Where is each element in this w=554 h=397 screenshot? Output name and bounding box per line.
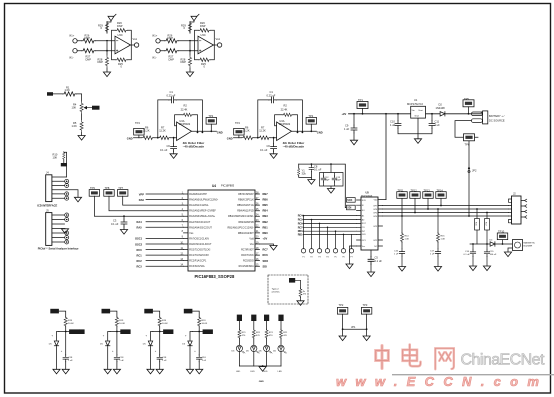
MCU pin names left bbox=[189, 193, 218, 268]
wire input bbox=[134, 137, 177, 139]
svg-text:P2: P2 bbox=[310, 257, 312, 259]
svg-text:U1: U1 bbox=[414, 98, 418, 102]
svg-text:R2: R2 bbox=[184, 104, 188, 108]
MCU right pin stubs bbox=[255, 194, 260, 266]
svg-text:R15: R15 bbox=[441, 236, 446, 238]
capacitor C14 bbox=[472, 244, 474, 266]
capacitor C1 loop bbox=[158, 100, 203, 138]
junction bbox=[157, 137, 159, 139]
svg-text:GND: GND bbox=[217, 130, 223, 134]
svg-text:DNP: DNP bbox=[86, 57, 92, 61]
svg-text:0.1 uF: 0.1 uF bbox=[314, 168, 322, 172]
svg-text:RC2: RC2 bbox=[137, 259, 143, 263]
input pin P2 bbox=[73, 49, 77, 53]
svg-text:+5V: +5V bbox=[263, 236, 268, 240]
resistor R5 bbox=[80, 121, 83, 132]
svg-text:PIC16F883: PIC16F883 bbox=[221, 184, 235, 188]
svg-text:1N4448: 1N4448 bbox=[436, 106, 446, 110]
svg-text:1 uF: 1 uF bbox=[430, 254, 435, 256]
svg-text:22pF: 22pF bbox=[336, 180, 342, 182]
resistor R26f bbox=[116, 29, 128, 32]
watermark logo char zhong bbox=[376, 346, 389, 369]
svg-text:470: 470 bbox=[242, 335, 246, 337]
svg-text:DC SOURCE: DC SOURCE bbox=[489, 118, 505, 122]
svg-text:RB1/AN10/P1C/C12IN3-: RB1/AN10/P1C/C12IN3- bbox=[228, 226, 254, 229]
svg-text:+9V: +9V bbox=[342, 112, 347, 116]
svg-text:RB1: RB1 bbox=[298, 233, 303, 236]
MCU pin numbers left bbox=[180, 191, 183, 266]
svg-text:RC2/P1A/CCP1: RC2/P1A/CCP1 bbox=[189, 260, 207, 263]
svg-text:1.0K: 1.0K bbox=[441, 239, 446, 241]
svg-text:PIC16F883_SSOP28: PIC16F883_SSOP28 bbox=[195, 274, 235, 279]
svg-text:RC0: RC0 bbox=[137, 248, 143, 252]
MCU pin numbers right bbox=[256, 191, 259, 266]
svg-text:RC1: RC1 bbox=[137, 253, 143, 257]
svg-text:RB3/AN9/PGM/C12IN2-: RB3/AN9/PGM/C12IN2- bbox=[228, 215, 254, 218]
svg-text:R14: R14 bbox=[405, 236, 410, 238]
power flag bbox=[108, 14, 116, 21]
svg-text:DNP: DNP bbox=[98, 60, 104, 64]
ground regulator bbox=[414, 139, 421, 144]
svg-text:22pF: 22pF bbox=[325, 180, 331, 182]
buzzer LS1 bbox=[513, 240, 523, 251]
resistor R1 bbox=[63, 92, 77, 96]
resistor R6 bbox=[142, 136, 154, 140]
svg-text:JP2: JP2 bbox=[472, 168, 477, 172]
svg-text:SDI: SDI bbox=[347, 207, 351, 210]
svg-text:U3C: U3C bbox=[118, 33, 123, 37]
junction bbox=[106, 40, 108, 42]
svg-text:Typical: Typical bbox=[272, 289, 279, 291]
ground bbox=[61, 229, 68, 234]
op-amp U3A bbox=[177, 122, 192, 141]
svg-text:GND: GND bbox=[127, 136, 133, 140]
diode Dk bbox=[54, 341, 58, 346]
diode D2 bbox=[440, 112, 445, 116]
ground bbox=[74, 197, 81, 202]
U5 pin stubs right bbox=[378, 200, 386, 247]
svg-text:MAGNETIC: MAGNETIC bbox=[524, 242, 536, 245]
resistor R7 bbox=[158, 136, 170, 140]
svg-text:U4: U4 bbox=[212, 184, 216, 188]
svg-text:U5: U5 bbox=[366, 191, 370, 195]
svg-text:1 uF: 1 uF bbox=[344, 127, 350, 131]
svg-text:C9: C9 bbox=[345, 123, 349, 127]
capacitor Ck bbox=[63, 355, 68, 362]
svg-text:SDI: SDI bbox=[263, 265, 268, 269]
svg-text:RC7: RC7 bbox=[263, 248, 269, 252]
connector J5 PICkit bbox=[38, 208, 79, 250]
diode D4 bbox=[490, 242, 495, 246]
U5 bus wires left bbox=[303, 216, 357, 235]
MCU U4 PIC16F883 bbox=[188, 184, 255, 280]
svg-text:RB7: RB7 bbox=[263, 192, 269, 196]
svg-text:ChinaECNet: ChinaECNet bbox=[461, 352, 546, 369]
svg-text:1 uF: 1 uF bbox=[435, 123, 441, 127]
svg-text:RC0/T1OSO/T1CKI: RC0/T1OSO/T1CKI bbox=[189, 249, 210, 252]
input conditioning circuit 2 bbox=[100, 309, 131, 374]
load caps box bbox=[330, 163, 332, 165]
svg-text:0.1 uF: 0.1 uF bbox=[464, 254, 471, 256]
svg-text:RC5: RC5 bbox=[298, 219, 303, 222]
resistor R29 bbox=[105, 22, 108, 33]
wire J1 return bbox=[455, 121, 478, 216]
svg-text:TP4: TP4 bbox=[135, 121, 140, 125]
capacitor C15 bbox=[486, 244, 488, 266]
svg-text:RC7/RX/DT: RC7/RX/DT bbox=[241, 249, 254, 252]
svg-text:P6: P6 bbox=[342, 257, 344, 259]
svg-text:SCK: SCK bbox=[362, 200, 367, 202]
wire TP9 to pin5 bbox=[94, 196, 183, 216]
svg-text:DNP: DNP bbox=[85, 36, 91, 40]
pin circle bbox=[65, 236, 69, 240]
input conditioning circuit 3 bbox=[143, 309, 174, 374]
svg-text:GND: GND bbox=[259, 381, 264, 383]
capacitor C13 bbox=[332, 176, 337, 182]
pin circle bbox=[65, 240, 69, 244]
svg-text:www.ECCN.com: www.ECCN.com bbox=[336, 374, 548, 389]
svg-text:RB7/ICSPDAT: RB7/ICSPDAT bbox=[238, 193, 254, 196]
ground buzzer bbox=[504, 252, 511, 257]
ground MCU Vss bbox=[260, 244, 274, 246]
resistor box R17 bbox=[486, 213, 488, 245]
svg-text:RA6/OSC2/CLKOUT: RA6/OSC2/CLKOUT bbox=[189, 243, 212, 246]
op-amp stage U3C bbox=[69, 14, 139, 76]
svg-text:R19: R19 bbox=[68, 320, 73, 322]
resistor R25 bbox=[116, 58, 128, 61]
svg-text:P1: P1 bbox=[302, 257, 304, 259]
feedback box wires bbox=[112, 30, 132, 60]
test point TP6 bbox=[464, 134, 475, 141]
svg-text:MCP1702-5.0: MCP1702-5.0 bbox=[407, 102, 424, 106]
svg-text:C5: C5 bbox=[375, 256, 379, 260]
capacitor C6 bbox=[173, 137, 175, 139]
svg-text:RC6: RC6 bbox=[263, 253, 269, 257]
pin circle bbox=[65, 179, 69, 183]
svg-text:0.1 uF: 0.1 uF bbox=[160, 148, 168, 152]
svg-text:RC7: RC7 bbox=[298, 226, 303, 229]
svg-text:D6: D6 bbox=[232, 350, 236, 352]
junction bbox=[65, 331, 67, 333]
svg-text:P4: P4 bbox=[326, 257, 328, 259]
ground bbox=[120, 230, 127, 235]
svg-text:100 uF: 100 uF bbox=[490, 254, 497, 256]
svg-text:Vi1+: Vi1+ bbox=[69, 34, 75, 38]
svg-text:SCK: SCK bbox=[347, 199, 352, 202]
svg-text:470: 470 bbox=[303, 294, 307, 296]
svg-text:Vo1: Vo1 bbox=[133, 37, 138, 41]
svg-text:10.0K: 10.0K bbox=[68, 323, 74, 325]
svg-text:TP6: TP6 bbox=[465, 142, 470, 146]
wire top bbox=[57, 311, 70, 369]
svg-text:~40 dB/Decade: ~40 dB/Decade bbox=[183, 145, 205, 149]
svg-text:C17: C17 bbox=[430, 251, 435, 253]
jumper JP2 bbox=[468, 167, 470, 169]
svg-text:P3: P3 bbox=[318, 257, 320, 259]
LED string 1 bbox=[232, 315, 247, 374]
resistor R27 bbox=[82, 49, 96, 53]
MCU left pin stubs bbox=[184, 194, 189, 266]
svg-text:P7: P7 bbox=[350, 257, 352, 259]
U5 inner pin names bbox=[362, 200, 367, 248]
capacitor C12 bbox=[321, 176, 326, 182]
svg-text:R21: R21 bbox=[242, 332, 247, 334]
RC chain TP11 bbox=[401, 216, 403, 267]
svg-text:C3: C3 bbox=[113, 218, 117, 222]
svg-text:RA1/AN1/C12IN1-: RA1/AN1/C12IN1- bbox=[189, 204, 209, 207]
ground bbox=[78, 136, 85, 141]
svg-text:C18: C18 bbox=[68, 357, 73, 359]
op-amp stage U3D bbox=[152, 14, 222, 76]
watermark logo char wang bbox=[435, 348, 454, 369]
capacitor C8 bbox=[311, 163, 313, 165]
svg-text:0.1 uF: 0.1 uF bbox=[375, 259, 383, 263]
net label out wide c1 bbox=[79, 329, 85, 334]
svg-text:10K: 10K bbox=[72, 105, 77, 109]
resistor box R16 bbox=[476, 209, 478, 244]
resistor R26 bbox=[82, 39, 96, 43]
svg-text:OSC1: OSC1 bbox=[135, 237, 143, 241]
svg-text:RA4: RA4 bbox=[137, 220, 143, 224]
svg-text:C1: C1 bbox=[170, 90, 174, 94]
svg-text:C15: C15 bbox=[490, 251, 495, 253]
ground LED bbox=[259, 367, 266, 372]
svg-text:JP1: JP1 bbox=[351, 325, 356, 329]
svg-text:0.1 uF: 0.1 uF bbox=[111, 222, 119, 226]
svg-text:BUZZER: BUZZER bbox=[524, 246, 533, 248]
watermark divider line bbox=[392, 374, 554, 376]
ground bbox=[308, 180, 315, 185]
svg-text:RB2: RB2 bbox=[263, 220, 269, 224]
jumper JP1 wire bbox=[343, 314, 367, 336]
svg-text:SDO: SDO bbox=[263, 259, 269, 263]
net label wiper bbox=[92, 106, 100, 110]
net label out bbox=[69, 329, 79, 334]
svg-text:ICD INTERFACE: ICD INTERFACE bbox=[37, 203, 57, 207]
svg-text:RC5/SDO: RC5/SDO bbox=[243, 260, 254, 263]
wire bbox=[53, 94, 82, 136]
ground bbox=[339, 336, 346, 341]
long 5V rail down bbox=[385, 113, 387, 115]
MCU pin names right bbox=[228, 193, 255, 268]
svg-text:RA2/AN2/VREF-/CVREF: RA2/AN2/VREF-/CVREF bbox=[189, 210, 216, 213]
svg-text:PICkit™ Serial Analyzer Interf: PICkit™ Serial Analyzer Interface bbox=[38, 247, 79, 251]
output pin PA2 bbox=[134, 43, 138, 47]
ground bbox=[350, 140, 357, 145]
svg-text:RC4/SDI/SDA: RC4/SDI/SDA bbox=[239, 265, 254, 268]
svg-text:Vi1-: Vi1- bbox=[69, 56, 74, 60]
bus wires to J2 bbox=[383, 206, 509, 217]
capacitor C5 bbox=[370, 250, 372, 272]
LED string 3 bbox=[259, 315, 274, 374]
svg-text:RA3/MCLR/VPP: RA3/MCLR/VPP bbox=[189, 193, 207, 196]
svg-text:RA7/OSC1/CLKIN: RA7/OSC1/CLKIN bbox=[189, 237, 209, 240]
capacitor C3 bbox=[123, 215, 125, 217]
svg-text:P5: P5 bbox=[334, 257, 336, 259]
pin circle bbox=[65, 192, 69, 196]
wire TP8 to pin4 bbox=[109, 196, 184, 210]
svg-text:Vdd: Vdd bbox=[249, 237, 254, 240]
svg-text:RA0: RA0 bbox=[139, 198, 145, 202]
svg-text:RA5/AN4/SS/C2OUT: RA5/AN4/SS/C2OUT bbox=[189, 226, 212, 229]
resistor Rk bbox=[64, 316, 67, 327]
resistor R10 pullup bbox=[53, 151, 67, 176]
svg-text:MCP6022: MCP6022 bbox=[179, 122, 191, 126]
ground bbox=[483, 266, 490, 271]
svg-text:C11: C11 bbox=[435, 119, 440, 123]
svg-text:J2: J2 bbox=[513, 192, 516, 196]
resistor R2 loop bbox=[175, 115, 198, 133]
capacitor C11 bbox=[431, 113, 433, 115]
svg-text:J4: J4 bbox=[46, 171, 49, 175]
svg-text:RC4: RC4 bbox=[298, 215, 303, 218]
svg-text:RC1/T1OSI/CCP2: RC1/T1OSI/CCP2 bbox=[189, 254, 209, 257]
svg-text:RA0/AN0/ULPWU/C12IN0-: RA0/AN0/ULPWU/C12IN0- bbox=[189, 199, 218, 202]
ground bbox=[327, 189, 334, 194]
svg-text:VPP: VPP bbox=[139, 192, 144, 196]
ground bbox=[367, 272, 374, 277]
test pin circles row bbox=[301, 215, 353, 259]
svg-text:RA3/AN3/VREF+/C1IN+: RA3/AN3/VREF+/C1IN+ bbox=[189, 215, 216, 218]
svg-text:RB0/AN12/INT: RB0/AN12/INT bbox=[238, 232, 254, 235]
LED common wire bbox=[239, 365, 281, 367]
svg-text:RB5/AN13/T1G: RB5/AN13/T1G bbox=[237, 204, 254, 207]
svg-text:J5: J5 bbox=[46, 208, 49, 212]
U5 pin stubs left bbox=[357, 200, 362, 246]
pin circle bbox=[65, 218, 69, 222]
pin circle bbox=[65, 196, 69, 200]
connector J4 ICD bbox=[37, 171, 81, 208]
pin circle bbox=[65, 184, 69, 188]
svg-text:RB1: RB1 bbox=[263, 225, 269, 229]
pin circle bbox=[65, 231, 69, 235]
svg-text:RB4/AN11/P1D: RB4/AN11/P1D bbox=[237, 210, 254, 213]
pin wires J4 bbox=[52, 177, 78, 198]
capacitor C9 bbox=[353, 113, 355, 115]
svg-text:RC6: RC6 bbox=[298, 222, 303, 225]
power input wire bbox=[349, 113, 484, 115]
svg-text:Vss: Vss bbox=[362, 246, 365, 248]
svg-text:11.2K: 11.2K bbox=[159, 129, 166, 133]
ground bbox=[469, 266, 476, 271]
ground bbox=[170, 154, 177, 159]
svg-text:RB5: RB5 bbox=[263, 203, 269, 207]
svg-text:all LEDs: all LEDs bbox=[272, 292, 281, 294]
resistor R28 bbox=[105, 56, 108, 67]
svg-text:RC6/TX/CK: RC6/TX/CK bbox=[241, 254, 254, 257]
svg-text:D4: D4 bbox=[490, 240, 494, 242]
svg-text:Vout: Vout bbox=[418, 109, 423, 112]
svg-text:1 uF: 1 uF bbox=[390, 123, 396, 127]
J2 right hooks bbox=[521, 199, 527, 218]
svg-text:22.4K: 22.4K bbox=[181, 108, 188, 112]
svg-text:RB2/AN8/P1B: RB2/AN8/P1B bbox=[239, 221, 255, 224]
svg-text:RA4/T0CKI/C1OUT: RA4/T0CKI/C1OUT bbox=[189, 221, 210, 224]
svg-text:TP2: TP2 bbox=[339, 303, 344, 307]
U5 left label boxes bbox=[347, 198, 356, 203]
wire in1 bbox=[77, 40, 115, 42]
svg-text:1 uF: 1 uF bbox=[394, 254, 399, 256]
ground U5 area bbox=[350, 246, 357, 264]
output wire bbox=[131, 44, 135, 46]
svg-text:+: + bbox=[61, 350, 63, 353]
divider net label bbox=[47, 92, 53, 96]
svg-text:1.0K: 1.0K bbox=[72, 124, 78, 128]
LED string 4 bbox=[273, 315, 288, 374]
svg-text:RB3: RB3 bbox=[263, 214, 269, 218]
net label in bbox=[50, 309, 59, 314]
ground pair bbox=[53, 369, 60, 374]
svg-text:C16: C16 bbox=[394, 251, 399, 253]
LED driver note dashed box bbox=[268, 275, 308, 305]
svg-text:C14: C14 bbox=[465, 251, 470, 253]
svg-text:SO: SO bbox=[362, 210, 365, 212]
svg-text:TP3: TP3 bbox=[363, 303, 368, 307]
crystal Y1 bbox=[299, 164, 312, 180]
svg-text:RA5: RA5 bbox=[137, 226, 143, 230]
RC chain TP13 bbox=[437, 209, 439, 267]
svg-text:0.22 uF: 0.22 uF bbox=[167, 94, 176, 98]
svg-text:D5: D5 bbox=[49, 344, 53, 346]
svg-text:Vdd: Vdd bbox=[374, 199, 378, 201]
pin wires J5 bbox=[52, 215, 65, 242]
input conditioning circuit 4 bbox=[182, 309, 213, 374]
wire in2 bbox=[77, 50, 115, 52]
svg-text:RB0: RB0 bbox=[263, 231, 269, 235]
net labels bus bbox=[298, 215, 303, 237]
svg-text:1.0K: 1.0K bbox=[405, 239, 410, 241]
pin circle bbox=[65, 213, 69, 217]
crystal cluster wire bbox=[299, 164, 347, 208]
buzzer wire bbox=[470, 244, 513, 252]
junction bbox=[106, 50, 108, 52]
wire rail bbox=[107, 21, 111, 72]
svg-text:DNP: DNP bbox=[117, 24, 123, 28]
input pin P1 bbox=[73, 39, 77, 43]
svg-text:C10: C10 bbox=[390, 119, 395, 123]
svg-text:+: + bbox=[52, 335, 54, 338]
svg-text:C6: C6 bbox=[167, 144, 171, 148]
svg-text:1.0K: 1.0K bbox=[65, 88, 71, 92]
svg-text:10K: 10K bbox=[53, 155, 58, 159]
svg-text:11.2K: 11.2K bbox=[143, 129, 150, 133]
ground bbox=[103, 72, 110, 77]
input conditioning circuit 1 bbox=[49, 309, 80, 374]
filter stage 2 bbox=[227, 90, 323, 158]
svg-text:RC3/SCK/SCL: RC3/SCK/SCL bbox=[189, 265, 205, 268]
watermark logo char dian bbox=[403, 345, 421, 367]
svg-text:1 uF: 1 uF bbox=[68, 360, 73, 362]
op-amp U3C bbox=[115, 36, 131, 54]
ground bbox=[363, 336, 370, 341]
svg-text:LED: LED bbox=[236, 371, 241, 373]
svg-text:32k: 32k bbox=[302, 171, 307, 175]
filter stage 1 bbox=[127, 90, 223, 158]
svg-text:RC3: RC3 bbox=[137, 265, 143, 269]
svg-text:RB6/ICSPCLK: RB6/ICSPCLK bbox=[238, 199, 254, 202]
svg-text:RB4: RB4 bbox=[263, 209, 269, 213]
output wire bbox=[192, 130, 217, 132]
svg-text:OSC2: OSC2 bbox=[135, 242, 143, 246]
MCU right net labels bbox=[263, 192, 269, 269]
svg-text:BATTERY + /: BATTERY + / bbox=[489, 114, 505, 118]
capacitor C10 bbox=[397, 113, 399, 115]
svg-text:RB6: RB6 bbox=[263, 198, 269, 202]
potentiometer R4 bbox=[80, 102, 83, 113]
wire TP7 to pin3 bbox=[123, 196, 184, 205]
LED string 2 bbox=[246, 315, 261, 374]
